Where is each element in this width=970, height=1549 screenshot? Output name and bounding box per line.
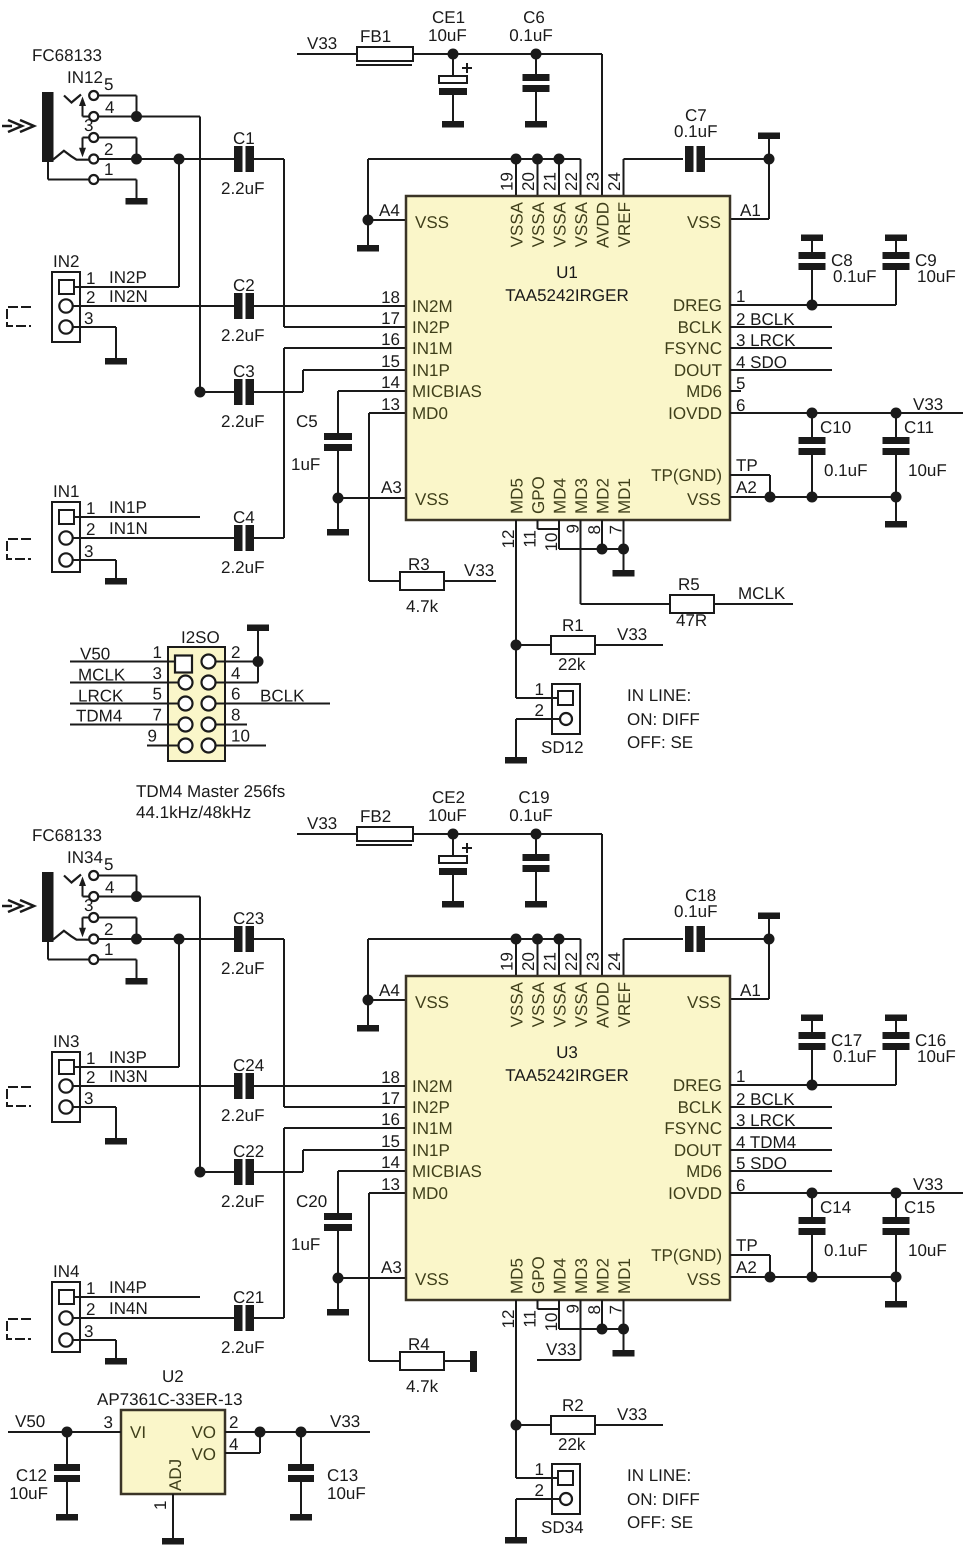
- svg-text:2.2uF: 2.2uF: [221, 179, 264, 198]
- svg-text:IN12: IN12: [67, 68, 103, 87]
- svg-text:OFF: SE: OFF: SE: [627, 1513, 693, 1532]
- svg-text:10uF: 10uF: [908, 461, 947, 480]
- svg-text:10uF: 10uF: [428, 806, 467, 825]
- svg-text:4: 4: [105, 878, 114, 897]
- svg-text:3: 3: [104, 1413, 113, 1432]
- svg-text:22k: 22k: [558, 1435, 586, 1454]
- svg-text:V33: V33: [913, 1175, 943, 1194]
- svg-text:R5: R5: [678, 575, 700, 594]
- svg-text:10uF: 10uF: [327, 1484, 366, 1503]
- svg-text:VSSA: VSSA: [529, 201, 548, 247]
- svg-text:21: 21: [541, 952, 560, 971]
- svg-text:22: 22: [562, 172, 581, 191]
- svg-text:IN2P: IN2P: [109, 268, 147, 287]
- svg-text:IN3N: IN3N: [109, 1067, 148, 1086]
- svg-text:2: 2: [231, 643, 240, 662]
- svg-text:TP: TP: [736, 456, 758, 475]
- svg-text:1: 1: [104, 160, 113, 179]
- svg-text:DOUT: DOUT: [674, 1141, 722, 1160]
- svg-text:TP(GND): TP(GND): [651, 1246, 722, 1265]
- svg-text:MD2: MD2: [594, 1258, 613, 1294]
- svg-text:C10: C10: [820, 418, 851, 437]
- svg-text:BCLK: BCLK: [260, 687, 305, 706]
- svg-text:C21: C21: [233, 1288, 264, 1307]
- svg-text:IN1P: IN1P: [412, 1141, 450, 1160]
- svg-text:0.1uF: 0.1uF: [674, 902, 717, 921]
- svg-text:44.1kHz/48kHz: 44.1kHz/48kHz: [136, 803, 251, 822]
- svg-text:V33: V33: [330, 1412, 360, 1431]
- svg-text:IOVDD: IOVDD: [668, 1184, 722, 1203]
- svg-text:V33: V33: [464, 561, 494, 580]
- svg-text:1: 1: [104, 940, 113, 959]
- svg-text:10uF: 10uF: [908, 1241, 947, 1260]
- svg-text:3 LRCK: 3 LRCK: [736, 1111, 796, 1130]
- svg-text:4: 4: [231, 664, 240, 683]
- svg-text:1uF: 1uF: [291, 455, 320, 474]
- svg-text:0.1uF: 0.1uF: [509, 26, 552, 45]
- svg-text:TAA5242IRGER: TAA5242IRGER: [505, 286, 628, 305]
- svg-text:15: 15: [381, 1132, 400, 1151]
- svg-text:TAA5242IRGER: TAA5242IRGER: [505, 1066, 628, 1085]
- svg-text:1uF: 1uF: [291, 1235, 320, 1254]
- svg-text:V33: V33: [307, 34, 337, 53]
- svg-text:2.2uF: 2.2uF: [221, 558, 264, 577]
- svg-text:13: 13: [381, 395, 400, 414]
- svg-text:IN LINE:: IN LINE:: [627, 1466, 691, 1485]
- svg-text:AVDD: AVDD: [594, 202, 613, 248]
- svg-text:C19: C19: [518, 788, 549, 807]
- svg-text:C5: C5: [296, 412, 318, 431]
- svg-text:VREF: VREF: [615, 982, 634, 1027]
- svg-text:11: 11: [521, 1310, 540, 1328]
- svg-text:IN4: IN4: [53, 1262, 79, 1281]
- svg-text:2.2uF: 2.2uF: [221, 1106, 264, 1125]
- svg-text:3: 3: [84, 309, 93, 328]
- svg-text:V50: V50: [15, 1412, 45, 1431]
- svg-text:MICBIAS: MICBIAS: [412, 1162, 482, 1181]
- svg-text:2 BCLK: 2 BCLK: [736, 310, 795, 329]
- svg-text:C2: C2: [233, 276, 255, 295]
- svg-text:TDM4: TDM4: [76, 707, 122, 726]
- svg-text:0.1uF: 0.1uF: [833, 1047, 876, 1066]
- svg-text:MCLK: MCLK: [738, 584, 786, 603]
- svg-text:IN3P: IN3P: [109, 1048, 147, 1067]
- svg-text:FSYNC: FSYNC: [664, 339, 722, 358]
- svg-text:VSS: VSS: [687, 1270, 721, 1289]
- svg-text:VSS: VSS: [687, 993, 721, 1012]
- svg-text:MD1: MD1: [615, 478, 634, 514]
- svg-text:VSS: VSS: [687, 490, 721, 509]
- svg-text:R4: R4: [408, 1335, 430, 1354]
- svg-text:2.2uF: 2.2uF: [221, 959, 264, 978]
- svg-text:20: 20: [519, 952, 538, 971]
- svg-text:4: 4: [105, 98, 114, 117]
- svg-text:10: 10: [231, 727, 250, 746]
- svg-text:V33: V33: [307, 814, 337, 833]
- svg-text:MD0: MD0: [412, 404, 448, 423]
- svg-text:A1: A1: [740, 201, 761, 220]
- svg-text:2: 2: [86, 1300, 95, 1319]
- svg-text:17: 17: [381, 1089, 400, 1108]
- svg-text:DREG: DREG: [673, 296, 722, 315]
- svg-text:1: 1: [535, 1460, 544, 1479]
- svg-text:CE1: CE1: [432, 8, 465, 27]
- svg-text:C23: C23: [233, 909, 264, 928]
- svg-text:FB1: FB1: [360, 27, 391, 46]
- svg-text:VSSA: VSSA: [572, 201, 591, 247]
- svg-text:22: 22: [562, 952, 581, 971]
- svg-text:6: 6: [736, 396, 745, 415]
- svg-text:A3: A3: [381, 1258, 402, 1277]
- svg-text:2 BCLK: 2 BCLK: [736, 1090, 795, 1109]
- svg-text:5: 5: [104, 855, 113, 874]
- svg-text:FC68133: FC68133: [32, 826, 102, 845]
- svg-text:V33: V33: [913, 395, 943, 414]
- svg-text:7: 7: [153, 706, 162, 725]
- svg-text:1: 1: [86, 1279, 95, 1298]
- svg-text:VSSA: VSSA: [551, 981, 570, 1027]
- svg-text:IN1P: IN1P: [109, 498, 147, 517]
- svg-text:8: 8: [231, 706, 240, 725]
- svg-text:U2: U2: [162, 1367, 184, 1386]
- svg-text:VO: VO: [191, 1423, 216, 1442]
- svg-text:2: 2: [86, 520, 95, 539]
- svg-text:16: 16: [381, 1110, 400, 1129]
- svg-text:2: 2: [229, 1413, 238, 1432]
- svg-text:C20: C20: [296, 1192, 327, 1211]
- svg-text:MD6: MD6: [686, 1162, 722, 1181]
- svg-text:1: 1: [153, 643, 162, 662]
- svg-text:DOUT: DOUT: [674, 361, 722, 380]
- svg-text:3: 3: [84, 1322, 93, 1341]
- svg-text:0.1uF: 0.1uF: [509, 806, 552, 825]
- svg-text:U3: U3: [556, 1043, 578, 1062]
- svg-text:VREF: VREF: [615, 202, 634, 247]
- svg-text:V50: V50: [80, 645, 110, 664]
- svg-text:2: 2: [104, 920, 113, 939]
- svg-text:ON: DIFF: ON: DIFF: [627, 1490, 700, 1509]
- svg-text:SD12: SD12: [541, 738, 584, 757]
- svg-text:22k: 22k: [558, 655, 586, 674]
- svg-text:2.2uF: 2.2uF: [221, 1338, 264, 1357]
- svg-text:V33: V33: [617, 1405, 647, 1424]
- svg-text:A4: A4: [379, 981, 400, 1000]
- svg-text:23: 23: [584, 172, 603, 191]
- svg-text:IN1P: IN1P: [412, 361, 450, 380]
- svg-text:10uF: 10uF: [428, 26, 467, 45]
- svg-text:3: 3: [84, 542, 93, 561]
- svg-text:FC68133: FC68133: [32, 46, 102, 65]
- svg-text:4 TDM4: 4 TDM4: [736, 1133, 796, 1152]
- svg-text:5: 5: [736, 374, 745, 393]
- svg-text:FB2: FB2: [360, 807, 391, 826]
- svg-text:U1: U1: [556, 263, 578, 282]
- svg-text:3: 3: [84, 1089, 93, 1108]
- svg-text:OFF: SE: OFF: SE: [627, 733, 693, 752]
- svg-text:CE2: CE2: [432, 788, 465, 807]
- svg-text:2.2uF: 2.2uF: [221, 1192, 264, 1211]
- svg-text:47R: 47R: [676, 611, 707, 630]
- svg-text:ADJ: ADJ: [166, 1459, 185, 1491]
- svg-text:C15: C15: [904, 1198, 935, 1217]
- svg-text:VSSA: VSSA: [551, 201, 570, 247]
- svg-text:4: 4: [229, 1435, 238, 1454]
- svg-text:23: 23: [584, 952, 603, 971]
- svg-text:MD3: MD3: [572, 478, 591, 514]
- svg-text:6: 6: [231, 685, 240, 704]
- svg-text:1: 1: [86, 269, 95, 288]
- svg-text:IN1N: IN1N: [109, 519, 148, 538]
- svg-text:A1: A1: [740, 981, 761, 1000]
- svg-text:VSS: VSS: [415, 490, 449, 509]
- svg-text:VSS: VSS: [415, 1270, 449, 1289]
- svg-text:VSSA: VSSA: [508, 201, 527, 247]
- svg-text:C13: C13: [327, 1466, 358, 1485]
- svg-text:15: 15: [381, 352, 400, 371]
- svg-text:9: 9: [148, 727, 157, 746]
- svg-text:VO: VO: [191, 1445, 216, 1464]
- svg-text:1: 1: [736, 287, 745, 306]
- svg-text:1: 1: [86, 499, 95, 518]
- svg-text:R2: R2: [562, 1396, 584, 1415]
- svg-text:DREG: DREG: [673, 1076, 722, 1095]
- svg-text:C12: C12: [16, 1466, 47, 1485]
- svg-text:2.2uF: 2.2uF: [221, 326, 264, 345]
- svg-text:0.1uF: 0.1uF: [824, 461, 867, 480]
- svg-text:20: 20: [519, 172, 538, 191]
- svg-text:2.2uF: 2.2uF: [221, 412, 264, 431]
- svg-text:MD5: MD5: [508, 478, 527, 514]
- svg-text:3: 3: [84, 116, 93, 135]
- svg-text:VSSA: VSSA: [508, 981, 527, 1027]
- svg-text:4 SDO: 4 SDO: [736, 353, 787, 372]
- svg-text:C24: C24: [233, 1056, 264, 1075]
- svg-text:V33: V33: [617, 625, 647, 644]
- svg-text:IOVDD: IOVDD: [668, 404, 722, 423]
- svg-text:MICBIAS: MICBIAS: [412, 382, 482, 401]
- svg-text:ON: DIFF: ON: DIFF: [627, 710, 700, 729]
- svg-text:10uF: 10uF: [917, 1047, 956, 1066]
- svg-text:MCLK: MCLK: [78, 666, 126, 685]
- svg-text:0.1uF: 0.1uF: [824, 1241, 867, 1260]
- svg-text:C3: C3: [233, 362, 255, 381]
- svg-text:LRCK: LRCK: [78, 687, 124, 706]
- svg-text:I2SO: I2SO: [181, 628, 220, 647]
- svg-text:3: 3: [84, 896, 93, 915]
- svg-text:5: 5: [104, 75, 113, 94]
- svg-text:C11: C11: [904, 418, 934, 437]
- svg-text:IN3: IN3: [53, 1032, 79, 1051]
- svg-text:4.7k: 4.7k: [406, 1377, 439, 1396]
- svg-text:C22: C22: [233, 1142, 264, 1161]
- svg-text:6: 6: [736, 1176, 745, 1195]
- svg-text:VSSA: VSSA: [529, 981, 548, 1027]
- svg-text:MD3: MD3: [572, 1258, 591, 1294]
- svg-text:IN2N: IN2N: [109, 287, 148, 306]
- svg-text:19: 19: [498, 172, 517, 191]
- svg-text:GPO: GPO: [529, 1256, 548, 1294]
- svg-text:TP: TP: [736, 1236, 758, 1255]
- svg-text:VI: VI: [130, 1423, 146, 1442]
- svg-text:18: 18: [381, 1068, 400, 1087]
- svg-text:FSYNC: FSYNC: [664, 1119, 722, 1138]
- svg-text:18: 18: [381, 288, 400, 307]
- svg-text:1: 1: [736, 1067, 745, 1086]
- svg-text:MD1: MD1: [615, 1258, 634, 1294]
- svg-text:11: 11: [521, 530, 540, 548]
- svg-text:IN1M: IN1M: [412, 339, 453, 358]
- svg-text:4.7k: 4.7k: [406, 597, 439, 616]
- svg-text:17: 17: [381, 309, 400, 328]
- svg-text:19: 19: [498, 952, 517, 971]
- svg-text:16: 16: [381, 330, 400, 349]
- svg-text:VSS: VSS: [415, 993, 449, 1012]
- svg-text:2: 2: [86, 1068, 95, 1087]
- svg-text:1: 1: [535, 680, 544, 699]
- svg-text:3: 3: [153, 664, 162, 683]
- svg-text:V33: V33: [546, 1340, 576, 1359]
- svg-text:A2: A2: [736, 478, 757, 497]
- svg-text:C14: C14: [820, 1198, 851, 1217]
- svg-text:R1: R1: [562, 616, 584, 635]
- svg-text:IN1M: IN1M: [412, 1119, 453, 1138]
- svg-text:MD0: MD0: [412, 1184, 448, 1203]
- svg-text:AP7361C-33ER-13: AP7361C-33ER-13: [97, 1390, 243, 1409]
- svg-text:21: 21: [541, 172, 560, 191]
- svg-text:VSS: VSS: [415, 213, 449, 232]
- svg-text:C4: C4: [233, 508, 255, 527]
- svg-text:IN2P: IN2P: [412, 1098, 450, 1117]
- svg-text:A4: A4: [379, 201, 400, 220]
- svg-text:13: 13: [381, 1175, 400, 1194]
- svg-text:C1: C1: [233, 129, 255, 148]
- svg-text:2: 2: [86, 288, 95, 307]
- svg-text:2: 2: [535, 1481, 544, 1500]
- svg-text:MD2: MD2: [594, 478, 613, 514]
- svg-text:C6: C6: [523, 8, 545, 27]
- svg-text:TP(GND): TP(GND): [651, 466, 722, 485]
- svg-text:2: 2: [104, 140, 113, 159]
- svg-text:5: 5: [153, 685, 162, 704]
- svg-text:3 LRCK: 3 LRCK: [736, 331, 796, 350]
- svg-text:BCLK: BCLK: [678, 1098, 723, 1117]
- svg-text:IN2M: IN2M: [412, 297, 453, 316]
- svg-text:14: 14: [381, 1153, 400, 1172]
- svg-text:5 SDO: 5 SDO: [736, 1154, 787, 1173]
- svg-text:1: 1: [86, 1049, 95, 1068]
- svg-text:A3: A3: [381, 478, 402, 497]
- svg-text:IN2M: IN2M: [412, 1077, 453, 1096]
- svg-text:MD5: MD5: [508, 1258, 527, 1294]
- svg-text:14: 14: [381, 373, 400, 392]
- svg-text:0.1uF: 0.1uF: [674, 122, 717, 141]
- svg-text:R3: R3: [408, 555, 430, 574]
- svg-text:IN2: IN2: [53, 252, 79, 271]
- svg-text:VSSA: VSSA: [572, 981, 591, 1027]
- svg-text:SD34: SD34: [541, 1518, 584, 1537]
- svg-text:IN4N: IN4N: [109, 1299, 148, 1318]
- svg-text:MD6: MD6: [686, 382, 722, 401]
- svg-text:10uF: 10uF: [917, 267, 956, 286]
- svg-text:IN4P: IN4P: [109, 1278, 147, 1297]
- svg-text:2: 2: [535, 701, 544, 720]
- svg-text:24: 24: [605, 952, 624, 971]
- svg-text:TDM4 Master 256fs: TDM4 Master 256fs: [136, 782, 285, 801]
- svg-text:MD4: MD4: [551, 478, 570, 514]
- svg-text:MD4: MD4: [551, 1258, 570, 1294]
- svg-text:IN1: IN1: [53, 482, 79, 501]
- svg-text:VSS: VSS: [687, 213, 721, 232]
- svg-text:IN34: IN34: [67, 848, 103, 867]
- svg-text:A2: A2: [736, 1258, 757, 1277]
- svg-text:10uF: 10uF: [9, 1484, 48, 1503]
- svg-text:GPO: GPO: [529, 476, 548, 514]
- svg-text:24: 24: [605, 172, 624, 191]
- svg-text:1: 1: [151, 1501, 170, 1510]
- svg-text:AVDD: AVDD: [594, 982, 613, 1028]
- svg-text:IN2P: IN2P: [412, 318, 450, 337]
- svg-text:IN LINE:: IN LINE:: [627, 686, 691, 705]
- svg-text:0.1uF: 0.1uF: [833, 267, 876, 286]
- svg-text:BCLK: BCLK: [678, 318, 723, 337]
